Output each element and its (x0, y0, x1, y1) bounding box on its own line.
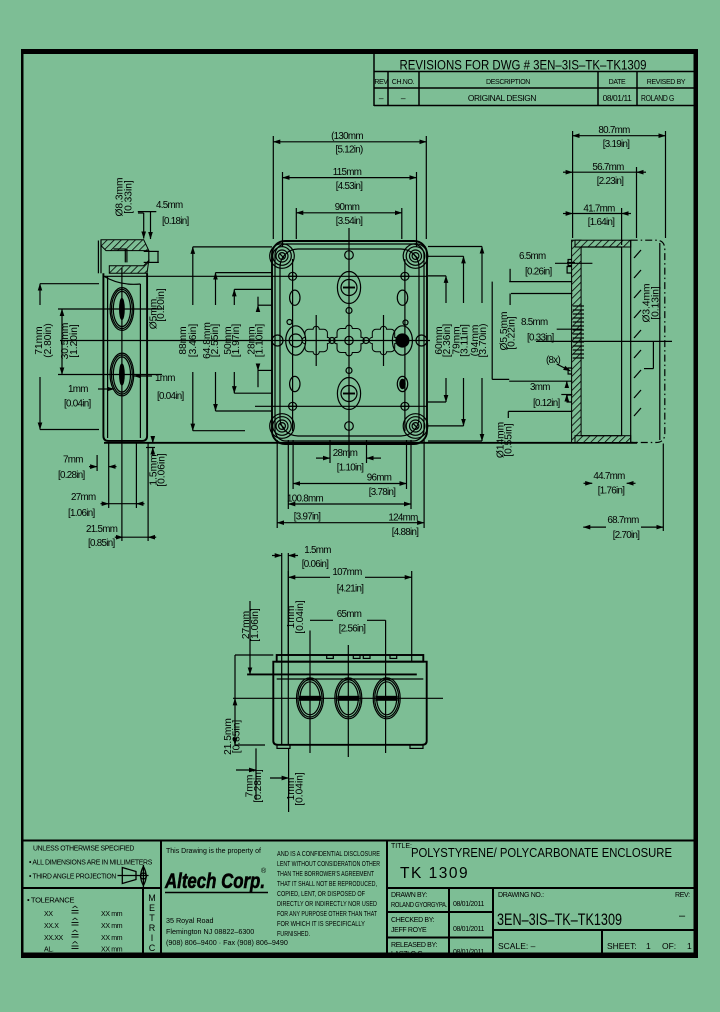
svg-text:[3.97in]: [3.97in] (294, 512, 322, 523)
svg-text:THAT IT SHALL NOT BE REPRODUCE: THAT IT SHALL NOT BE REPRODUCED, (277, 879, 377, 888)
svg-text:[0.33in]: [0.33in] (527, 333, 555, 344)
svg-text:[0.85in]: [0.85in] (232, 720, 243, 754)
svg-text:®: ® (261, 867, 267, 875)
svg-text:90mm: 90mm (335, 202, 360, 213)
svg-text:[0.12in]: [0.12in] (533, 398, 561, 409)
svg-text:DRAWING NO.:: DRAWING NO.: (498, 892, 544, 899)
svg-text:JEFF ROYE: JEFF ROYE (391, 927, 427, 934)
svg-text:This Drawing is the property o: This Drawing is the property of (166, 848, 261, 855)
svg-text:1.5mm: 1.5mm (304, 545, 331, 556)
svg-text:XX mm: XX mm (101, 923, 123, 930)
svg-text:08/01/2011: 08/01/2011 (453, 926, 484, 933)
svg-text:ORIGINAL DESIGN: ORIGINAL DESIGN (468, 93, 536, 103)
svg-text:08/01/2011: 08/01/2011 (453, 949, 484, 956)
svg-text:XX.X: XX.X (44, 923, 59, 930)
svg-text:M: M (148, 893, 156, 903)
svg-text:RELEASED BY:: RELEASED BY: (391, 942, 437, 949)
svg-text:1: 1 (646, 941, 651, 951)
svg-text:(908) 806–9400 · Fax (908) 806: (908) 806–9400 · Fax (908) 806–9490 (166, 938, 288, 947)
svg-text:• THIRD ANGLE PROJECTION: • THIRD ANGLE PROJECTION (29, 872, 116, 881)
svg-text:REV:: REV: (675, 892, 690, 899)
svg-text:SHEET:: SHEET: (607, 941, 637, 951)
svg-text:XX: XX (44, 911, 53, 918)
svg-text:28mm: 28mm (333, 448, 358, 459)
svg-text:FOR ANY PURPOSE OTHER THAN THA: FOR ANY PURPOSE OTHER THAN THAT (277, 909, 377, 918)
svg-text:56.7mm: 56.7mm (592, 162, 624, 173)
svg-text:[0.04in]: [0.04in] (295, 600, 306, 634)
svg-text:XX mm: XX mm (101, 947, 123, 954)
svg-text:AND IS A CONFIDENTIAL DISCLOSU: AND IS A CONFIDENTIAL DISCLOSURE (277, 849, 380, 858)
svg-text:ROLAND G: ROLAND G (641, 93, 674, 103)
svg-text:[3.54in]: [3.54in] (336, 216, 364, 227)
svg-text:35 Royal Road: 35 Royal Road (166, 916, 214, 925)
svg-text:[1.97in]: [1.97in] (231, 324, 242, 358)
svg-text:C: C (149, 943, 156, 953)
svg-text:LENT WITHOUT CONSIDERATION OTH: LENT WITHOUT CONSIDERATION OTHER (277, 859, 380, 868)
svg-text:E: E (149, 903, 155, 913)
svg-text:8.5mm: 8.5mm (521, 317, 548, 328)
svg-text:UNLESS OTHERWISE SPECIFIED: UNLESS OTHERWISE SPECIFIED (33, 844, 135, 853)
svg-text:[2.23in]: [2.23in] (597, 176, 625, 187)
svg-text:115mm: 115mm (333, 167, 362, 178)
svg-text:SCALE: –: SCALE: – (498, 941, 536, 951)
svg-text:FURNISHED.: FURNISHED. (277, 929, 310, 938)
svg-text:[3.78in]: [3.78in] (369, 487, 397, 498)
svg-text:[4.53in]: [4.53in] (336, 181, 364, 192)
svg-text:XX mm: XX mm (101, 935, 123, 942)
svg-text:[1.10in]: [1.10in] (255, 324, 266, 358)
svg-text:DIRECTLY OR INDIRECTLY NOR USE: DIRECTLY OR INDIRECTLY NOR USED (277, 899, 377, 908)
svg-text:[5.12in): [5.12in) (335, 145, 363, 156)
svg-text:4.5mm: 4.5mm (156, 200, 183, 211)
svg-text:41.7mm: 41.7mm (583, 204, 615, 215)
svg-text:T: T (149, 913, 155, 923)
svg-text:REV: REV (374, 79, 388, 86)
svg-text:[0.28in]: [0.28in] (253, 769, 264, 803)
svg-text:1mm: 1mm (155, 373, 175, 384)
svg-text:124mm: 124mm (388, 513, 418, 524)
svg-text:[0.13in]: [0.13in] (651, 286, 662, 320)
svg-text:REVISIONS FOR DWG # 3EN–3IS–TK: REVISIONS FOR DWG # 3EN–3IS–TK–TK1309 (400, 58, 647, 73)
svg-text:I: I (151, 933, 154, 943)
svg-text:[1.20in]: [1.20in] (69, 324, 80, 358)
svg-text:DRAWN BY:: DRAWN BY: (391, 892, 427, 899)
svg-text:OF:: OF: (662, 941, 676, 951)
svg-text:[0.28in]: [0.28in] (58, 470, 86, 481)
svg-text:[3.46in]: [3.46in] (188, 324, 199, 358)
svg-text:[3.70in): [3.70in) (478, 324, 489, 358)
svg-text:[3.19in]: [3.19in] (603, 139, 631, 150)
svg-text:21.5mm: 21.5mm (86, 524, 118, 535)
svg-text:44.7mm: 44.7mm (593, 471, 625, 482)
svg-text:27mm: 27mm (71, 492, 96, 503)
svg-text:[0.22in]: [0.22in] (507, 316, 518, 350)
svg-text:• ALL DIMENSIONS ARE IN MILLIM: • ALL DIMENSIONS ARE IN MILLIMETERS (29, 858, 152, 867)
svg-text:80.7mm: 80.7mm (598, 125, 630, 136)
svg-text:68.7mm: 68.7mm (607, 515, 639, 526)
svg-text:[2.56in]: [2.56in] (339, 624, 367, 635)
svg-text:[4.21in]: [4.21in] (337, 584, 365, 595)
svg-text:[2.55in]: [2.55in] (210, 324, 221, 358)
svg-text:COPIED, LENT, OR DISPOSED OF: COPIED, LENT, OR DISPOSED OF (277, 889, 365, 898)
svg-text:DATE: DATE (609, 79, 626, 86)
svg-text:[0.55in]: [0.55in] (504, 423, 515, 457)
svg-text:CHECKED BY:: CHECKED BY: (391, 917, 435, 924)
svg-text:XX.XX: XX.XX (44, 935, 64, 942)
svg-text:–: – (379, 93, 384, 103)
svg-text:TITLE:: TITLE: (391, 843, 412, 850)
svg-text:THAN THE BORROWER'S AGREEMENT: THAN THE BORROWER'S AGREEMENT (277, 869, 374, 878)
svg-text:[0.06in]: [0.06in] (157, 453, 168, 487)
svg-text:[1.76in]: [1.76in] (598, 486, 626, 497)
svg-text:[4.88in]: [4.88in] (392, 527, 420, 538)
svg-text:LASZLO G.: LASZLO G. (391, 951, 424, 958)
svg-text:[1.10in]: [1.10in] (337, 463, 365, 474)
svg-text:REVISED BY: REVISED BY (647, 79, 686, 86)
svg-text:[1.06in]: [1.06in] (68, 508, 96, 519)
svg-text:100.8mm: 100.8mm (287, 494, 323, 505)
svg-text:[0.04in]: [0.04in] (64, 399, 92, 410)
svg-text:96mm: 96mm (367, 473, 392, 484)
svg-text:Flemington NJ 08822–6300: Flemington NJ 08822–6300 (166, 927, 254, 936)
svg-text:3mm: 3mm (530, 382, 550, 393)
svg-text:[0.26in]: [0.26in] (525, 267, 553, 278)
svg-text:[1.06in]: [1.06in] (250, 608, 261, 642)
svg-text:CH.NO.: CH.NO. (392, 79, 415, 86)
svg-text:1mm: 1mm (68, 384, 88, 395)
svg-text:[3.11in]: [3.11in] (460, 324, 471, 357)
svg-text:[0.85in]: [0.85in] (88, 538, 116, 549)
svg-text:08/01/11: 08/01/11 (603, 93, 633, 103)
svg-text:R: R (149, 923, 156, 933)
svg-text:DESCRIPTION: DESCRIPTION (486, 79, 530, 86)
svg-text:[0.20in]: [0.20in] (156, 288, 167, 322)
svg-text:POLYSTYRENE/ POLYCARBONATE ENC: POLYSTYRENE/ POLYCARBONATE ENCLOSURE (411, 846, 672, 860)
svg-text:3EN–3IS–TK–TK1309: 3EN–3IS–TK–TK1309 (497, 910, 622, 929)
svg-text:TK 1309: TK 1309 (400, 865, 469, 882)
svg-text:1: 1 (687, 941, 692, 951)
svg-text:–: – (679, 910, 686, 922)
svg-text:ROLAND GYORGYPA.: ROLAND GYORGYPA. (391, 902, 447, 909)
svg-text:• TOLERANCE: • TOLERANCE (27, 896, 74, 905)
svg-text:[0.06in]: [0.06in] (302, 559, 330, 570)
svg-text:[0.04in]: [0.04in] (157, 391, 185, 402)
svg-text:FOR WHICH IT IS SPECIFICALLY: FOR WHICH IT IS SPECIFICALLY (277, 919, 365, 928)
svg-text:[0.04in]: [0.04in] (295, 772, 306, 806)
svg-text:–: – (401, 93, 406, 103)
svg-text:107mm: 107mm (332, 567, 362, 578)
svg-text:65mm: 65mm (337, 609, 362, 620)
svg-text:[0.18in]: [0.18in] (162, 216, 190, 227)
svg-text:08/01/2011: 08/01/2011 (453, 901, 484, 908)
svg-text:(130mm: (130mm (331, 131, 363, 142)
svg-text:6.5mm: 6.5mm (519, 251, 546, 262)
svg-text:AL.: AL. (44, 947, 54, 954)
svg-text:7mm: 7mm (63, 455, 83, 466)
svg-text:[1.64in]: [1.64in] (588, 217, 616, 228)
svg-text:[0.33in]: [0.33in] (124, 180, 135, 214)
svg-text:[2.70in]: [2.70in] (613, 530, 641, 541)
svg-text:XX mm: XX mm (101, 911, 123, 918)
svg-text:(2.80in): (2.80in) (43, 323, 54, 358)
svg-text:Altech Corp.: Altech Corp. (164, 870, 265, 893)
